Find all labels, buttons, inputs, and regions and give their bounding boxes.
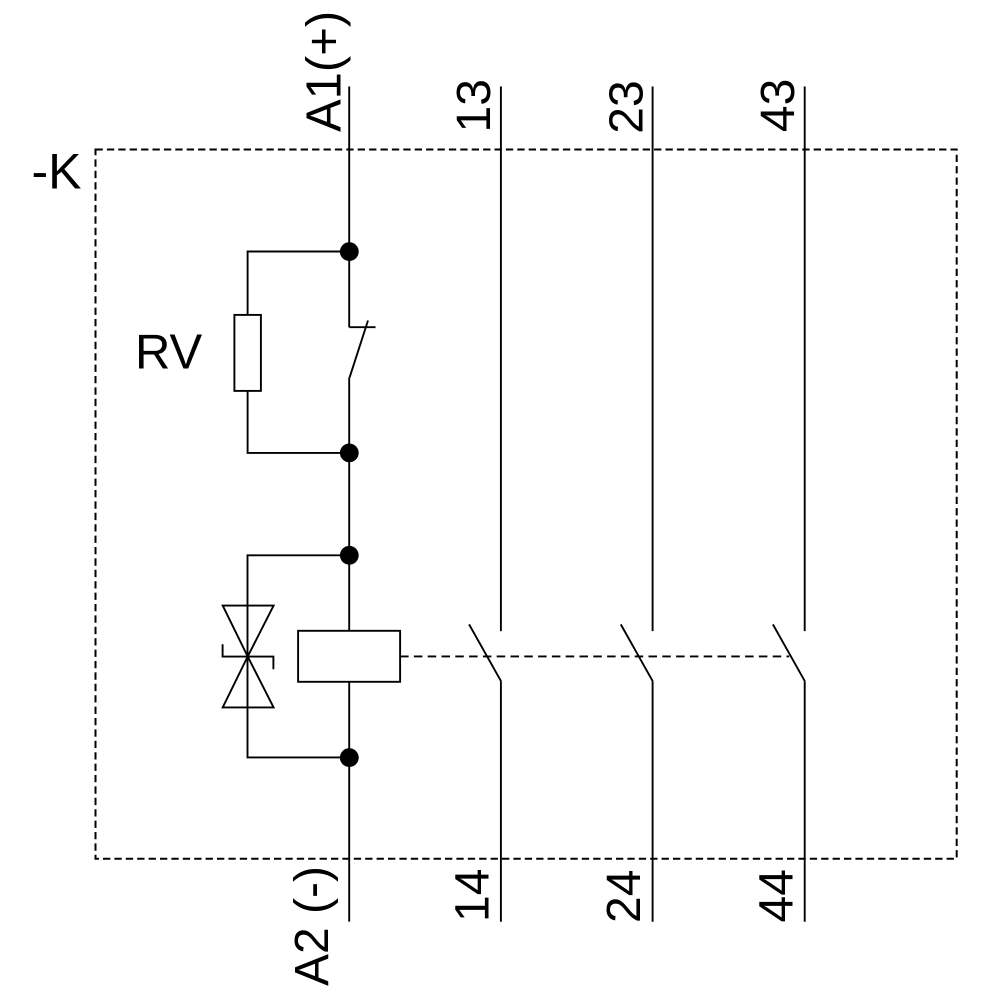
label RV	[135, 326, 203, 380]
terminal label A1(+)	[297, 11, 351, 132]
varistor RV body	[234, 315, 261, 391]
terminal label A2 (-)	[286, 866, 339, 986]
wire: coil path middle segment	[348, 377, 350, 630]
svg-text:24: 24	[598, 870, 651, 923]
node: junction dot top (RV branch top)	[340, 242, 359, 261]
relay coil body	[298, 631, 400, 682]
wire: suppressor branch bottom	[248, 707, 350, 757]
svg-text:43: 43	[752, 79, 805, 132]
contact 43-44 blade	[773, 624, 805, 681]
terminal label 43	[752, 79, 805, 132]
wire: coil path lower segment to A2	[348, 682, 350, 922]
suppressor diode upper triangle	[223, 606, 274, 657]
contact 43-44 upper wire	[804, 87, 806, 632]
suppressor cathode bar with end hooks	[223, 644, 274, 669]
svg-text:23: 23	[600, 80, 653, 133]
node: junction dot (RV branch bottom)	[340, 444, 359, 463]
svg-text:13: 13	[448, 79, 501, 132]
relay boundary (dashed enclosure)	[96, 150, 957, 859]
svg-text:14: 14	[447, 869, 500, 922]
terminal label 23	[600, 80, 653, 133]
terminal label 14	[447, 869, 500, 922]
node: junction dot (suppressor branch bottom)	[340, 748, 359, 767]
wire: coil path A1 upper segment	[348, 87, 350, 328]
contact 13-14 lower wire	[500, 681, 502, 922]
terminal label 13	[448, 79, 501, 132]
wire: suppressor branch top	[248, 555, 350, 605]
latching contact on coil path (fixed contact tick)	[349, 326, 375, 328]
wire: RV branch top	[248, 252, 350, 315]
svg-text:44: 44	[751, 869, 804, 922]
contact 23-24 blade	[621, 624, 653, 681]
label -K	[32, 144, 82, 200]
contact 13-14 blade	[469, 624, 501, 681]
wire: RV branch bottom	[248, 391, 350, 453]
terminal label 24	[598, 870, 651, 923]
suppressor diode lower triangle	[223, 657, 274, 708]
node: junction dot (suppressor branch top)	[340, 546, 359, 565]
svg-text:-K: -K	[32, 144, 82, 200]
contact 23-24 lower wire	[652, 681, 654, 922]
terminal label 44	[751, 869, 804, 922]
svg-text:A2 (-): A2 (-)	[286, 866, 339, 986]
svg-text:A1(+): A1(+)	[297, 11, 351, 132]
contact 43-44 lower wire	[804, 681, 806, 922]
mechanical linkage (dashed actuator line)	[400, 655, 789, 657]
latching contact blade	[350, 321, 368, 378]
svg-text:RV: RV	[135, 326, 203, 380]
contact 13-14 upper wire	[500, 87, 502, 632]
contact 23-24 upper wire	[652, 87, 654, 632]
wire: suppressor branch through symbol	[247, 606, 249, 708]
